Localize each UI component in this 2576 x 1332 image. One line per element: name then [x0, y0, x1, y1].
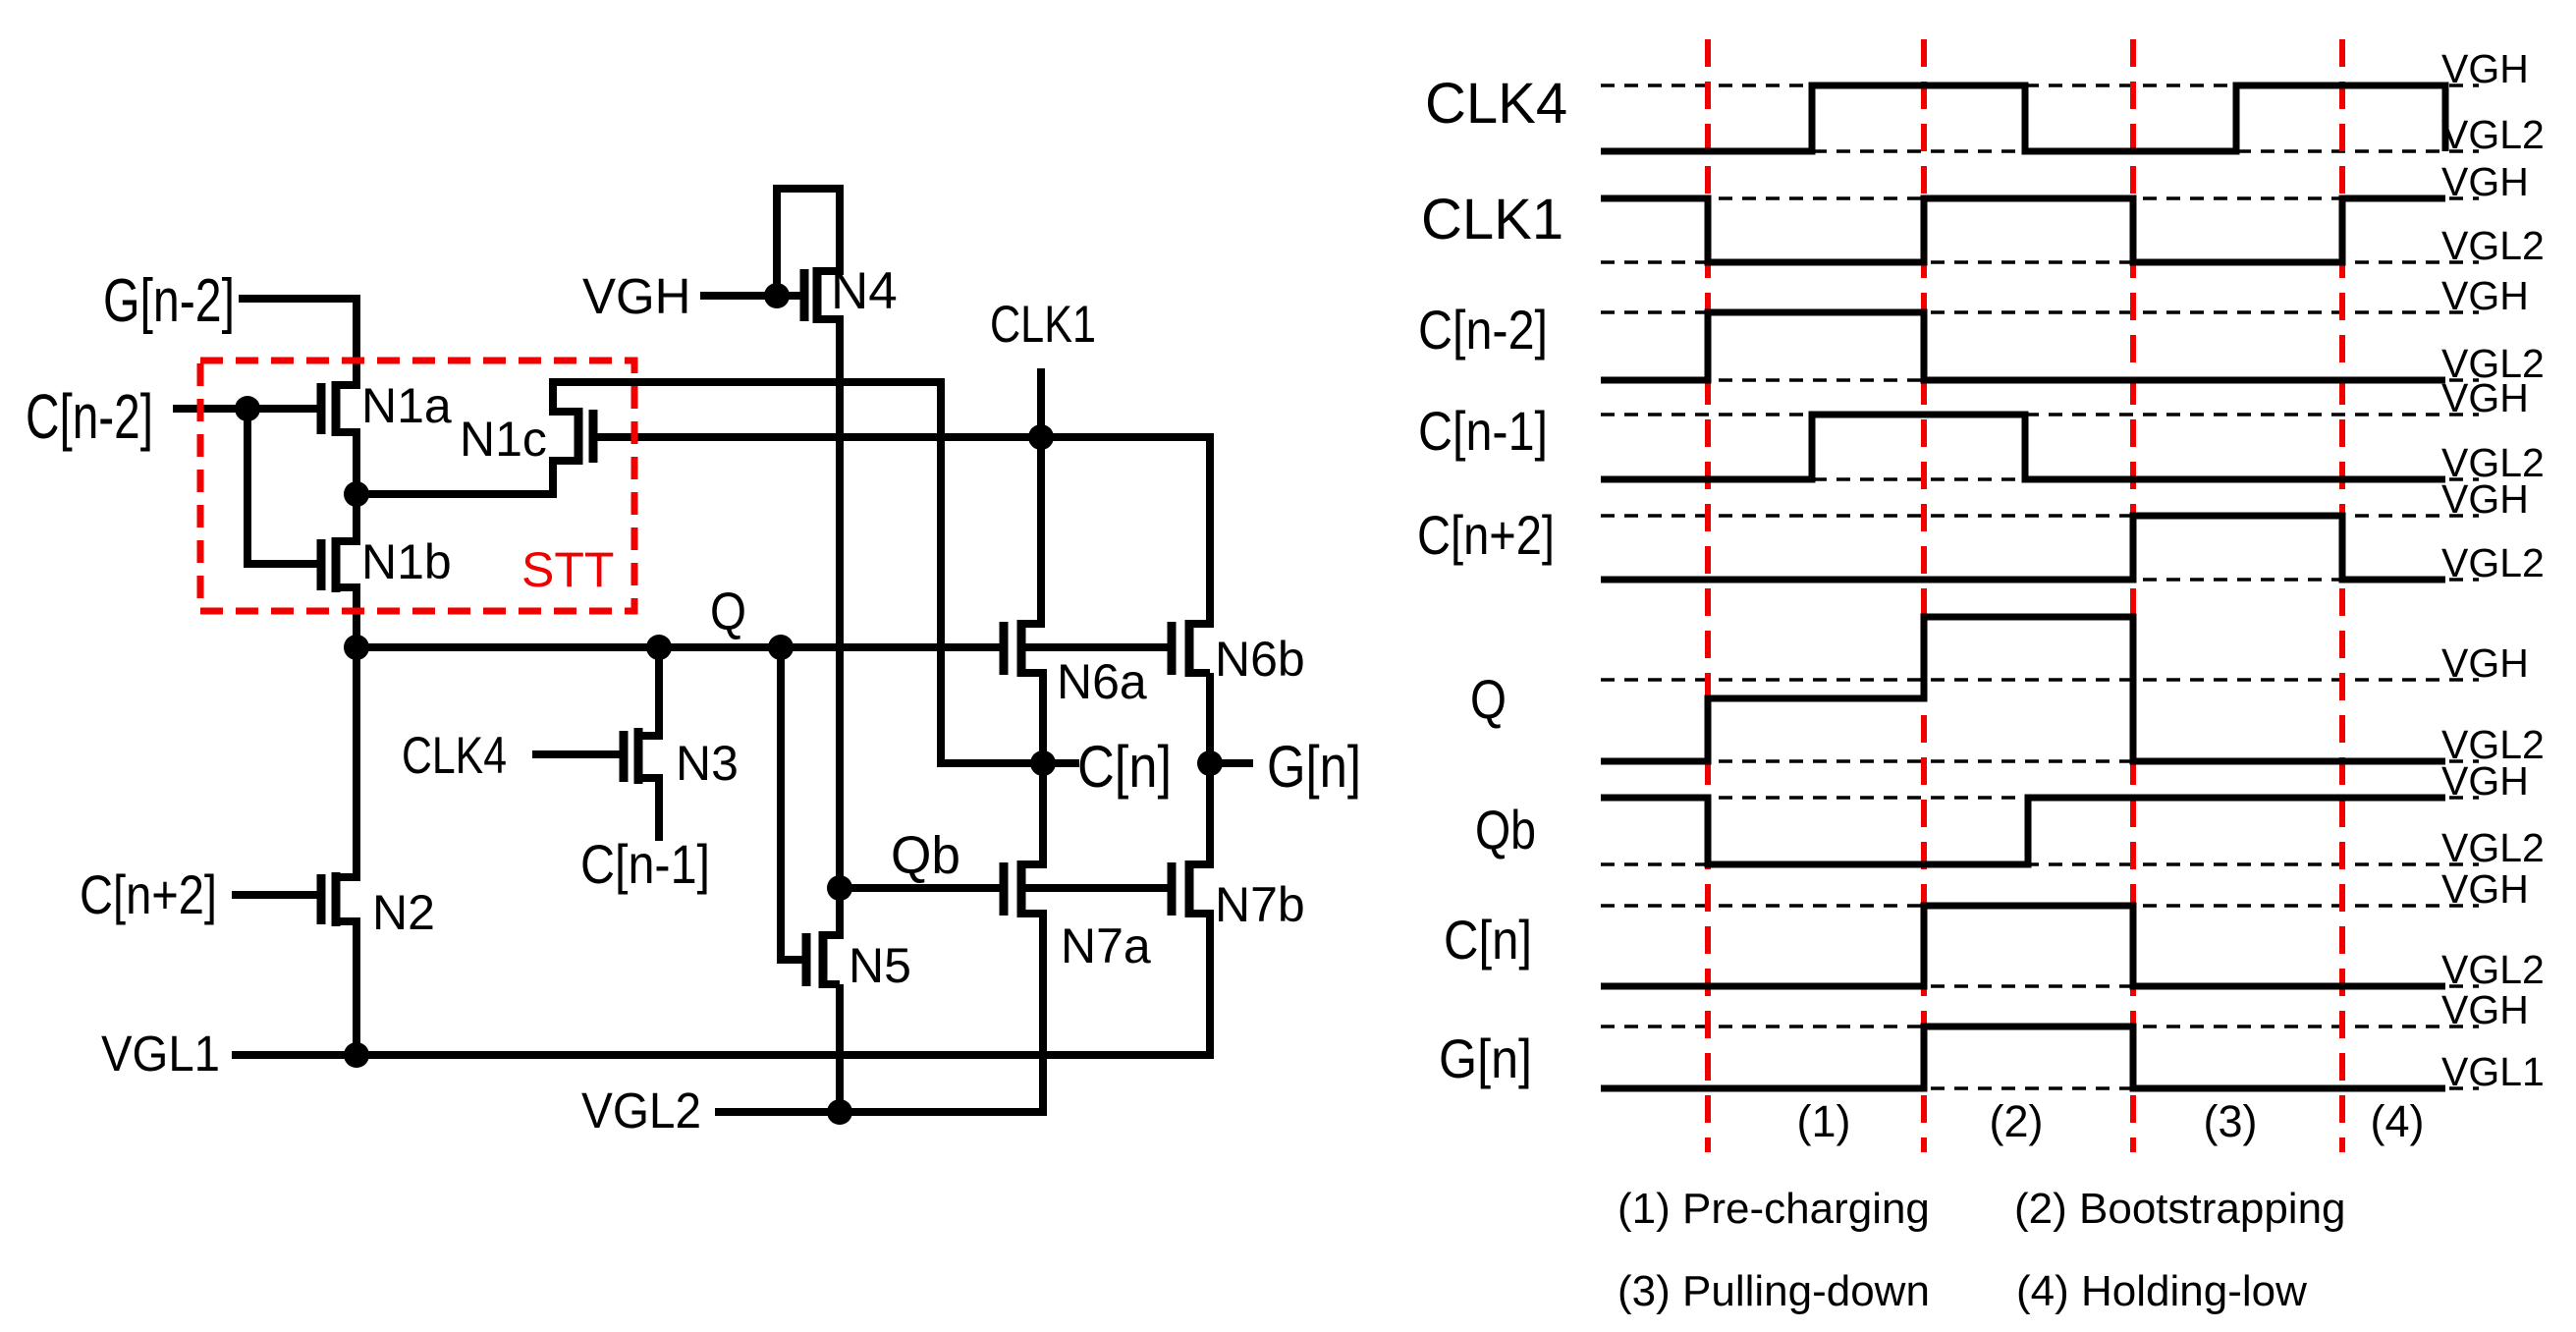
dashed level VGH of Qb [1601, 796, 2479, 800]
node dot VGL2 at N5 source [827, 1099, 852, 1125]
wire N4 diode loop top [777, 185, 840, 193]
wire CLK1 vertical stub [1037, 372, 1045, 437]
transistor N1b [321, 537, 360, 592]
dashed level VGL2 of CLK4 [1601, 149, 2479, 153]
svg-text:Q: Q [1470, 668, 1507, 730]
wire N3 source vertical to C[n-1] [655, 778, 663, 837]
svg-text:N6a: N6a [1057, 654, 1147, 709]
dashed level VGL2 of C[n+2] [1601, 578, 2479, 582]
wire main vertical top (G[n-2] to N1a drain) [353, 299, 360, 385]
dashed level VGH of C[n] [1601, 904, 2479, 908]
svg-text:C[n]: C[n] [1077, 734, 1172, 800]
waveform C[n] [1601, 906, 2445, 986]
phase boundary red dashed line 4 [2339, 39, 2345, 1152]
svg-text:VGH: VGH [2441, 866, 2529, 912]
node dot CLK1 junction [1028, 424, 1054, 450]
wire node A horizontal to N1c source [356, 490, 553, 498]
waveform Qb [1601, 798, 2445, 864]
wire G[n] label stub [1210, 759, 1249, 767]
svg-text:(2) Bootstrapping: (2) Bootstrapping [2014, 1185, 2346, 1233]
node dot Qb [827, 875, 852, 901]
svg-text:VGH: VGH [2441, 758, 2529, 804]
dashed level VGL1 of G[n] [1601, 1086, 2479, 1090]
node dot Q left [344, 635, 369, 660]
svg-text:(1): (1) [1797, 1096, 1851, 1146]
svg-text:VGL2: VGL2 [2441, 112, 2545, 157]
svg-text:CLK1: CLK1 [990, 296, 1096, 354]
svg-text:(4): (4) [2371, 1096, 2425, 1146]
dashed level VGH of C[n+2] [1601, 514, 2479, 518]
wire CLK1 vertical to N6a drain [1037, 437, 1045, 624]
node dot Q at N5 gate branch [768, 635, 794, 660]
dashed level VGL2 of C[n-2] [1601, 378, 2479, 382]
wire VGL1 horizontal [236, 1051, 1210, 1059]
svg-text:CLK4: CLK4 [1425, 72, 1567, 136]
waveform Q (pre-charge and bootstrap) [1601, 617, 2445, 761]
wire N1c gate to CLK1 and N6b drain [593, 433, 1210, 441]
phase boundary red dashed line 1 [1705, 39, 1711, 1152]
svg-text:C[n-1]: C[n-1] [1418, 400, 1548, 462]
wire C[n] label stub [1043, 759, 1075, 767]
svg-text:VGL2: VGL2 [2441, 223, 2545, 268]
wire N7a source vertical to VGL2 [1039, 914, 1047, 1112]
transistor N6b [1172, 620, 1210, 677]
dashed level VGH of G[n] [1601, 1025, 2479, 1028]
wire node Q horizontal [356, 643, 1004, 651]
svg-text:VGL2: VGL2 [2441, 540, 2545, 585]
wire N1a source to N1b drain (node A vertical) [353, 432, 360, 541]
waveform CLK1 [1601, 198, 2445, 262]
svg-text:C[n]: C[n] [1444, 909, 1532, 971]
transistor N4 [804, 267, 840, 323]
node dot VGL1 [344, 1042, 369, 1068]
node dot C[n] [1030, 750, 1056, 776]
svg-text:N3: N3 [676, 736, 739, 791]
phase boundary red dashed line 3 [2130, 39, 2136, 1152]
transistor N1a [321, 381, 360, 436]
svg-text:CLK1: CLK1 [1421, 188, 1563, 251]
wire N6a source vertical to C[n] node [1039, 673, 1047, 763]
svg-text:G[n-2]: G[n-2] [103, 267, 235, 335]
svg-text:N4: N4 [831, 262, 898, 320]
svg-text:C[n-2]: C[n-2] [1418, 299, 1548, 361]
svg-text:N7b: N7b [1215, 877, 1305, 932]
svg-text:Q: Q [710, 583, 746, 641]
wire VGL2 horizontal [719, 1108, 1043, 1116]
wire N1c source vertical [549, 461, 557, 494]
svg-text:(3): (3) [2204, 1096, 2258, 1146]
waveform C[n+2] [1601, 516, 2445, 580]
wire C[n] feed horizontal [941, 759, 1043, 767]
dashed level VGH of C[n-2] [1601, 310, 2479, 314]
dashed level VGH of CLK4 [1601, 83, 2479, 87]
transistor N7b [1172, 860, 1210, 917]
svg-text:N1c: N1c [460, 412, 547, 467]
wire C[n-2] branch vertical [244, 409, 251, 564]
node dot G[n] [1197, 750, 1223, 776]
svg-text:VGH: VGH [2441, 46, 2529, 91]
svg-text:VGH: VGH [2441, 159, 2529, 204]
dashed level VGL2 of CLK1 [1601, 260, 2479, 264]
node dot VGH gate/diode junction [764, 283, 790, 308]
wire N7b drain vertical [1206, 763, 1214, 864]
svg-text:N6b: N6b [1215, 632, 1305, 687]
svg-text:C[n-1]: C[n-1] [580, 833, 710, 895]
svg-text:Qb: Qb [891, 826, 960, 885]
svg-text:(2): (2) [1990, 1096, 2044, 1146]
wire C[n-2] horizontal to N1a gate [177, 405, 321, 413]
node dot A (N1a source / N1c source) [344, 481, 369, 507]
svg-text:VGH: VGH [582, 268, 691, 324]
svg-text:VGH: VGH [2441, 987, 2529, 1032]
wire G[n-2] horizontal [243, 295, 356, 303]
wire N7b source vertical to VGL1 [1206, 914, 1214, 1055]
svg-text:N5: N5 [849, 938, 911, 993]
wire N5 source vertical to VGL2 [836, 988, 844, 1112]
wire N6b source vertical to G[n] node [1206, 677, 1214, 763]
wire CLK4 to N3 gate [536, 750, 624, 758]
wire N3 drain vertical [655, 647, 663, 736]
svg-text:VGH: VGH [2441, 476, 2529, 522]
wire N1b source to N2 drain (Q vertical) [353, 587, 360, 877]
dashed level VGL2 of Q [1601, 759, 2479, 763]
svg-text:(4) Holding-low: (4) Holding-low [2016, 1267, 2307, 1315]
wire Qb to N7b gate [1021, 884, 1172, 892]
wire N7a drain vertical [1039, 763, 1047, 864]
wire N6b drain vertical [1206, 437, 1214, 624]
STT red dashed box [200, 361, 634, 611]
wire Q to N6b gate [1021, 643, 1172, 651]
svg-text:VGL2: VGL2 [581, 1082, 701, 1138]
svg-text:VGL1: VGL1 [2441, 1049, 2545, 1094]
svg-text:N2: N2 [372, 885, 435, 940]
transistor N7a [1004, 860, 1043, 917]
node dot Q at N3 drain [646, 635, 672, 660]
svg-text:Qb: Qb [1475, 799, 1536, 860]
wire N4 diode loop left vertical [773, 189, 781, 296]
svg-text:G[n]: G[n] [1439, 1027, 1532, 1089]
svg-text:CLK4: CLK4 [402, 727, 507, 785]
node dot C[n-2] gate branch [235, 396, 260, 421]
svg-text:(1) Pre-charging: (1) Pre-charging [1617, 1185, 1930, 1233]
waveform C[n-2] [1601, 312, 2445, 380]
transistor N6a [1004, 620, 1043, 677]
svg-text:N7a: N7a [1061, 918, 1151, 973]
dashed level VGH of Q [1601, 678, 2479, 682]
dashed level VGL2 of C[n-1] [1601, 477, 2479, 481]
waveform C[n-1] [1601, 415, 2445, 479]
wire C[n-2] branch to N1b gate [247, 560, 321, 568]
svg-text:VGL2: VGL2 [2441, 825, 2545, 870]
svg-text:VGH: VGH [2441, 273, 2529, 318]
dashed level VGH of C[n-1] [1601, 413, 2479, 416]
wire C[n+2] horizontal to N2 gate [236, 891, 321, 899]
waveform CLK4 [1601, 85, 2445, 151]
svg-text:(3) Pulling-down: (3) Pulling-down [1617, 1267, 1930, 1315]
wire vertical x958 down to C[n] feed [937, 382, 945, 763]
transistor N5 [806, 931, 840, 988]
dashed level VGL2 of Qb [1601, 862, 2479, 866]
svg-text:VGL2: VGL2 [2441, 947, 2545, 992]
svg-text:VGH: VGH [2441, 640, 2529, 686]
transistor N1c (mirrored, gate on right) [553, 408, 593, 465]
wire N1c drain vertical [549, 382, 557, 412]
svg-text:C[n+2]: C[n+2] [1417, 504, 1555, 566]
wire N4 source vertical down to N5 drain [836, 319, 844, 935]
svg-text:STT: STT [521, 542, 614, 597]
phase boundary red dashed line 2 [1921, 39, 1927, 1152]
svg-text:G[n]: G[n] [1267, 734, 1361, 800]
wire N1c drain top horizontal [553, 378, 941, 386]
wire N2 source to VGL1 [353, 921, 360, 1055]
svg-text:C[n+2]: C[n+2] [80, 863, 217, 925]
dashed level VGH of CLK1 [1601, 196, 2479, 200]
transistor N3 [624, 728, 659, 784]
svg-text:VGH: VGH [2441, 375, 2529, 420]
wire N5 gate stub [781, 956, 806, 964]
wire N4 diode loop right vertical to drain [836, 189, 844, 271]
svg-text:N1a: N1a [361, 378, 452, 433]
svg-text:C[n-2]: C[n-2] [26, 381, 153, 452]
waveform G[n] [1601, 1027, 2445, 1088]
wire node Qb horizontal [840, 884, 1004, 892]
svg-text:N1b: N1b [361, 534, 452, 589]
wire Q to N5 gate vertical [777, 647, 785, 960]
transistor N2 [321, 872, 360, 926]
wire VGH horizontal to N4 gate [704, 292, 800, 300]
svg-text:VGL1: VGL1 [101, 1026, 220, 1082]
dashed level VGL2 of C[n] [1601, 984, 2479, 988]
